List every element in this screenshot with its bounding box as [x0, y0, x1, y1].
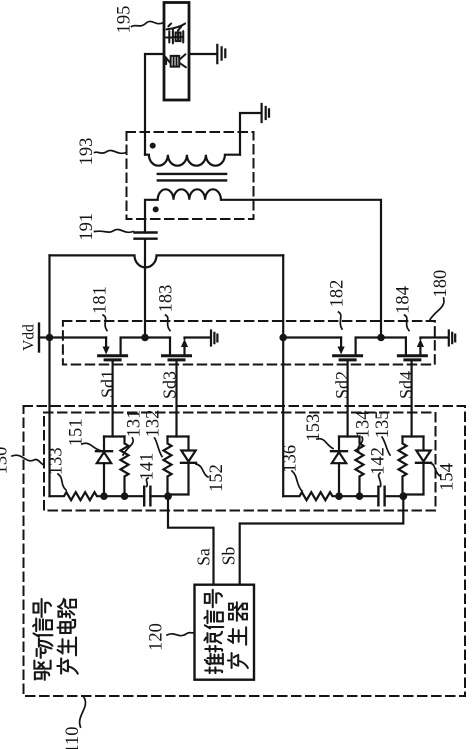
- leader 153: [317, 439, 333, 449]
- leader 120: [167, 633, 194, 636]
- leader 134: [358, 437, 363, 451]
- label 信 (drive): [33, 619, 52, 637]
- leader 152: [196, 464, 208, 477]
- leader 131: [123, 438, 133, 455]
- T-bar Sd3 network: [168, 435, 189, 437]
- junction dot Vdd right: [279, 334, 287, 342]
- capacitor 191: [135, 233, 157, 239]
- wire Sa: [168, 496, 214, 584]
- resistor R134: [356, 437, 364, 497]
- diode D154: [403, 437, 431, 495]
- svg-text:133: 133: [47, 447, 67, 475]
- leader 142: [379, 473, 381, 487]
- wire node A to Q183: [145, 336, 170, 338]
- svg-text:110: 110: [63, 726, 83, 749]
- leader 191: [95, 229, 134, 232]
- svg-text:Sd3: Sd3: [160, 371, 180, 399]
- gate wire Sd1: [111, 360, 113, 437]
- rail wire right: [339, 495, 403, 497]
- label 负: [166, 54, 186, 67]
- svg-text:182: 182: [328, 280, 348, 308]
- leader 193: [95, 150, 127, 153]
- primary polarity dot: [150, 143, 156, 149]
- T-bar Sd4 network: [403, 435, 424, 437]
- rail wire left: [104, 495, 168, 497]
- resistor R135: [399, 437, 407, 497]
- svg-text:136: 136: [280, 445, 300, 473]
- wire Vdd to Q181 source: [50, 336, 107, 338]
- svg-text:142: 142: [369, 447, 389, 475]
- leader 184: [405, 315, 410, 331]
- wire Sb: [240, 496, 404, 584]
- svg-text:Vdd: Vdd: [21, 324, 38, 351]
- svg-text:184: 184: [394, 286, 414, 314]
- switch stage dashed box 180: [63, 321, 435, 365]
- svg-text:183: 183: [157, 285, 177, 313]
- diode D152: [168, 437, 196, 495]
- svg-text:141: 141: [138, 453, 158, 481]
- junction dots left rail: [100, 492, 108, 500]
- label 信: [204, 611, 223, 629]
- label 器: [229, 602, 247, 620]
- transistor Q182: [334, 338, 381, 360]
- svg-text:131: 131: [124, 410, 144, 438]
- leader 133: [58, 474, 66, 490]
- svg-text:Sd2: Sd2: [332, 371, 352, 399]
- svg-text:195: 195: [115, 6, 135, 34]
- label 产 (drive): [57, 658, 77, 673]
- svg-text:130: 130: [0, 447, 12, 475]
- ground (primary): [262, 104, 269, 122]
- diode D153: [331, 437, 347, 497]
- secondary winding: [145, 189, 381, 337]
- leader 136: [292, 471, 302, 491]
- inner dashed box 130: [44, 413, 436, 511]
- resistor R136: [283, 492, 339, 500]
- gate wire Sd2: [347, 360, 349, 437]
- label 号 (drive): [34, 599, 52, 617]
- label 驱: [34, 661, 50, 680]
- leader 151: [82, 443, 100, 450]
- label 载: [166, 24, 185, 44]
- wire load right to ground: [189, 53, 217, 55]
- push-pull generator box 120: [195, 585, 255, 680]
- label 挽: [204, 632, 222, 652]
- svg-text:152: 152: [207, 464, 227, 492]
- leader 110: [80, 698, 86, 728]
- resistor R133: [50, 492, 105, 500]
- wire Vdd terminal to rail: [39, 336, 50, 338]
- wire load left to primary winding: [145, 54, 164, 155]
- ground (Q183 drain): [211, 331, 217, 346]
- wire node B to Q184: [381, 336, 406, 338]
- junction dot node A: [141, 334, 149, 342]
- junction dots right rail: [335, 492, 343, 500]
- svg-text:Sd1: Sd1: [98, 370, 118, 398]
- leader 135: [382, 437, 390, 455]
- junction dot Vdd left: [46, 334, 54, 342]
- label 生 (drive): [58, 637, 76, 655]
- ground (load): [217, 45, 225, 63]
- svg-text:151: 151: [66, 419, 86, 447]
- label 动: [37, 639, 53, 658]
- load box 195 负载: [164, 3, 189, 101]
- svg-text:191: 191: [77, 213, 97, 241]
- svg-text:193: 193: [77, 138, 97, 166]
- svg-text:132: 132: [144, 410, 164, 438]
- T-bar Sd1 network: [104, 435, 125, 437]
- leader 132: [155, 438, 162, 457]
- label 产: [228, 653, 248, 668]
- label 号: [205, 590, 222, 608]
- Vdd rail right: [282, 255, 284, 496]
- primary winding: [145, 155, 240, 166]
- leader 195: [132, 21, 164, 26]
- outer dashed box 110: [24, 406, 466, 696]
- leader 183: [166, 315, 171, 331]
- svg-text:Sa: Sa: [194, 548, 214, 566]
- ground (Q184 drain): [449, 331, 455, 346]
- leader 180: [427, 298, 444, 321]
- transformer dashed box 193: [127, 132, 254, 219]
- junction dot node B: [377, 334, 385, 342]
- svg-text:180: 180: [431, 270, 451, 298]
- wire Vdd to Q182 source: [283, 336, 341, 338]
- capacitor C142: [378, 487, 384, 506]
- wire primary right to ground: [240, 113, 261, 155]
- resistor R131: [121, 437, 129, 497]
- gate wire Sd3: [175, 360, 177, 437]
- leader 181: [103, 315, 107, 331]
- Vdd terminal: [38, 324, 40, 352]
- wire capacitor to node A: [144, 239, 146, 338]
- leader 141: [146, 478, 148, 487]
- svg-text:153: 153: [304, 414, 324, 442]
- transformer core: [158, 174, 226, 181]
- diode D151: [96, 437, 112, 497]
- label 电: [58, 620, 76, 633]
- svg-text:135: 135: [373, 411, 393, 439]
- svg-text:134: 134: [354, 411, 374, 439]
- transistor Q184: [398, 338, 448, 360]
- leader 130: [12, 455, 43, 464]
- gate wire Sd4: [411, 360, 413, 437]
- leader 182: [339, 312, 343, 329]
- capacitor C141: [144, 487, 150, 506]
- secondary polarity dot: [153, 206, 159, 212]
- svg-text:120: 120: [147, 623, 167, 651]
- svg-text:154: 154: [437, 463, 457, 491]
- T-bar Sd2 network: [339, 435, 360, 437]
- svg-text:181: 181: [91, 286, 111, 314]
- Vdd rail left: [48, 255, 50, 496]
- leader 154: [430, 463, 440, 476]
- label 路: [58, 599, 76, 618]
- Vdd distribution wire with hop: [50, 255, 284, 267]
- label 生: [228, 627, 246, 645]
- transistor Q183: [163, 338, 211, 360]
- svg-text:Sd4: Sd4: [396, 371, 416, 399]
- resistor R132: [164, 437, 172, 497]
- svg-text:Sb: Sb: [219, 547, 239, 566]
- transistor Q181: [99, 338, 145, 360]
- label 推: [205, 654, 223, 673]
